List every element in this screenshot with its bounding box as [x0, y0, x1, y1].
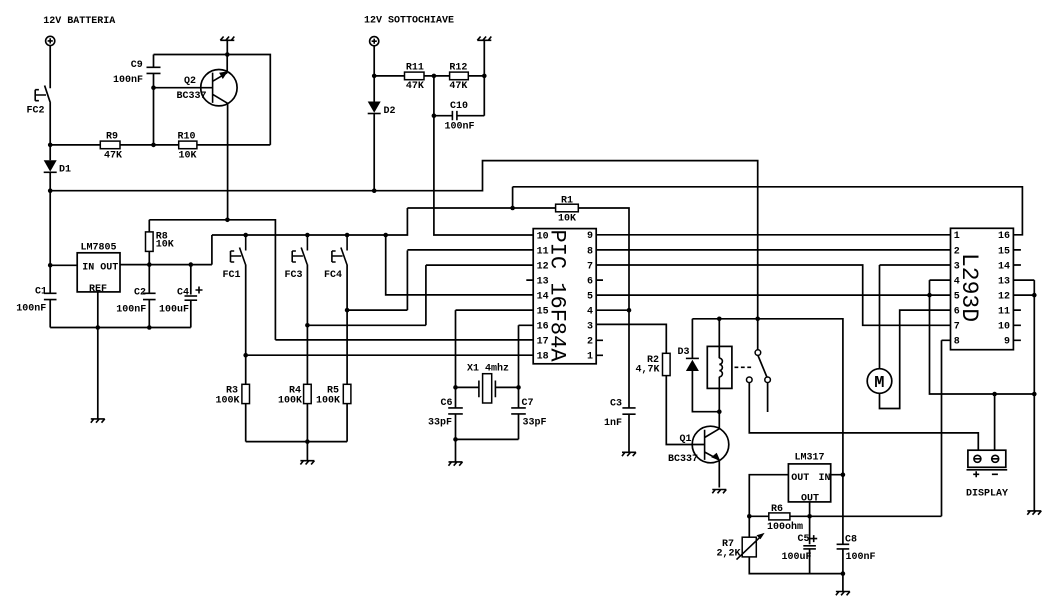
- svg-text:4: 4: [587, 307, 593, 318]
- svg-text:14: 14: [998, 261, 1010, 272]
- svg-text:15: 15: [998, 246, 1010, 257]
- svg-text:100uF: 100uF: [782, 552, 812, 563]
- svg-text:47K: 47K: [104, 151, 122, 162]
- svg-text:C7: C7: [522, 398, 534, 409]
- svg-text:16: 16: [998, 231, 1010, 242]
- svg-text:OUT: OUT: [801, 494, 819, 505]
- svg-text:DISPLAY: DISPLAY: [966, 489, 1008, 500]
- svg-text:C10: C10: [450, 101, 468, 112]
- svg-text:100K: 100K: [216, 396, 240, 407]
- svg-text:100nF: 100nF: [846, 552, 876, 563]
- svg-text:5: 5: [587, 292, 593, 303]
- svg-text:1: 1: [587, 352, 593, 363]
- svg-text:10K: 10K: [156, 240, 174, 251]
- svg-text:6: 6: [587, 277, 593, 288]
- svg-text:C4: C4: [177, 288, 189, 299]
- svg-text:33pF: 33pF: [523, 418, 547, 429]
- svg-text:2,2K: 2,2K: [717, 549, 741, 560]
- svg-text:9: 9: [587, 231, 593, 242]
- svg-text:D3: D3: [678, 347, 690, 358]
- svg-text:4,7K: 4,7K: [636, 365, 660, 376]
- svg-text:C8: C8: [845, 535, 857, 546]
- svg-text:L293D: L293D: [956, 253, 982, 322]
- svg-text:100K: 100K: [278, 396, 302, 407]
- svg-text:OUT: OUT: [791, 473, 809, 484]
- svg-text:FC4: FC4: [324, 270, 342, 281]
- svg-text:IN: IN: [819, 473, 831, 484]
- svg-text:M: M: [874, 374, 884, 393]
- svg-text:100uF: 100uF: [159, 305, 189, 316]
- svg-text:100nF: 100nF: [116, 305, 146, 316]
- svg-text:LM7805: LM7805: [81, 243, 117, 254]
- svg-text:12V SOTTOCHIAVE: 12V SOTTOCHIAVE: [364, 15, 454, 26]
- svg-text:100nF: 100nF: [113, 75, 143, 86]
- svg-text:C5: C5: [798, 534, 810, 545]
- svg-text:12: 12: [998, 292, 1010, 303]
- svg-text:Q1: Q1: [680, 434, 692, 445]
- svg-text:FC3: FC3: [285, 270, 303, 281]
- svg-text:R1: R1: [561, 196, 573, 207]
- svg-text:1: 1: [954, 231, 960, 242]
- svg-text:100nF: 100nF: [445, 122, 475, 133]
- svg-text:1nF: 1nF: [604, 418, 622, 429]
- svg-text:LM317: LM317: [795, 453, 825, 464]
- svg-text:R10: R10: [178, 131, 196, 142]
- svg-text:C2: C2: [134, 288, 146, 299]
- svg-text:R9: R9: [106, 131, 118, 142]
- svg-text:100K: 100K: [316, 396, 340, 407]
- svg-text:FC2: FC2: [27, 106, 45, 117]
- svg-text:R12: R12: [449, 63, 467, 74]
- svg-text:3: 3: [587, 322, 593, 333]
- svg-text:BC337: BC337: [668, 454, 698, 465]
- svg-text:8: 8: [587, 246, 593, 257]
- svg-text:7: 7: [587, 261, 593, 272]
- svg-text:100ohm: 100ohm: [767, 521, 803, 533]
- svg-text:7: 7: [954, 322, 960, 333]
- svg-text:8: 8: [954, 337, 960, 348]
- svg-text:C1: C1: [35, 287, 47, 298]
- svg-text:PIC 16F84A: PIC 16F84A: [545, 230, 570, 363]
- svg-text:REF: REF: [89, 284, 107, 295]
- svg-text:D1: D1: [59, 165, 71, 176]
- svg-text:C9: C9: [131, 60, 143, 71]
- svg-text:100nF: 100nF: [16, 304, 46, 315]
- svg-text:47K: 47K: [406, 81, 424, 92]
- svg-text:R11: R11: [406, 63, 424, 74]
- svg-text:12V BATTERIA: 12V BATTERIA: [43, 16, 115, 27]
- svg-text:47K: 47K: [449, 81, 467, 92]
- svg-text:D2: D2: [384, 106, 396, 117]
- svg-text:11: 11: [998, 307, 1010, 318]
- svg-text:IN OUT: IN OUT: [82, 263, 118, 274]
- svg-text:R6: R6: [771, 504, 783, 515]
- svg-text:10K: 10K: [179, 151, 197, 162]
- svg-text:33pF: 33pF: [428, 418, 452, 429]
- svg-text:BC337: BC337: [177, 91, 207, 102]
- svg-text:C3: C3: [610, 399, 622, 410]
- svg-text:10: 10: [998, 322, 1010, 333]
- svg-text:9: 9: [1004, 337, 1010, 348]
- svg-text:FC1: FC1: [223, 270, 241, 281]
- svg-text:C6: C6: [441, 398, 453, 409]
- svg-text:Q2: Q2: [184, 76, 196, 87]
- svg-text:13: 13: [998, 277, 1010, 288]
- svg-text:10K: 10K: [558, 214, 576, 225]
- svg-text:X1 4mhz: X1 4mhz: [467, 363, 509, 375]
- svg-text:2: 2: [587, 337, 593, 348]
